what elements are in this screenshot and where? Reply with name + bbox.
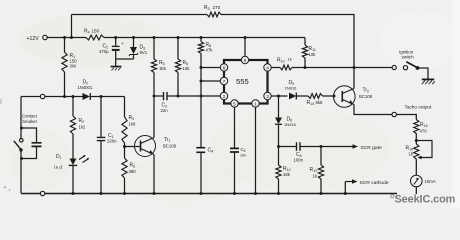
svg-text:1k2: 1k2: [79, 125, 87, 130]
IC U1 555 timer: [224, 60, 268, 104]
svg-text:2: 2: [223, 94, 226, 100]
pin 2: [220, 92, 227, 99]
pin 6: [220, 64, 227, 71]
svg-text:1k8: 1k8: [129, 122, 137, 127]
svg-text:BC108: BC108: [163, 144, 177, 149]
junction: [100, 192, 103, 195]
node SCR cathode output: [344, 182, 346, 194]
wire: [201, 67, 220, 69]
wire: [354, 105, 392, 115]
svg-text:5: 5: [233, 101, 236, 107]
resistor R4 150: [86, 35, 104, 40]
junction: [277, 145, 280, 148]
meter M1 10mA: [411, 175, 423, 187]
wire: [201, 80, 220, 82]
svg-text:390: 390: [129, 169, 137, 174]
svg-text:7: 7: [223, 79, 226, 85]
junction: [200, 192, 203, 195]
svg-text:Contact: Contact: [22, 114, 38, 119]
svg-text:BC108: BC108: [359, 94, 373, 99]
junction: [114, 36, 117, 39]
svg-text:150: 150: [92, 29, 100, 34]
wire: [71, 15, 73, 38]
svg-text:47k: 47k: [206, 48, 214, 53]
resistor R9 1k8: [124, 97, 126, 118]
svg-text:SCR gate: SCR gate: [361, 145, 382, 151]
svg-text:switch: switch: [402, 55, 415, 60]
wire: [22, 128, 37, 143]
node SCR gate output: [321, 146, 353, 148]
switch contact breaker points: [20, 128, 22, 138]
wire: [153, 96, 155, 138]
diode D6 1N916: [278, 96, 280, 118]
junction: [177, 36, 180, 39]
wire: [154, 95, 220, 97]
terminal: [40, 94, 44, 98]
junction: [320, 145, 323, 148]
resistor R2 1k2: [72, 97, 74, 117]
wire: [47, 37, 86, 39]
junction: [63, 95, 66, 98]
watermark: [391, 195, 394, 198]
wire: [353, 68, 355, 89]
ground: [422, 78, 434, 80]
terminal: [392, 112, 396, 116]
resistor R8 47k: [200, 38, 202, 42]
svg-text:6k8: 6k8: [316, 100, 324, 105]
svg-text:l.e.d.: l.e.d.: [54, 165, 63, 170]
resistor R10 1k: [280, 65, 292, 70]
capacitor C1 220n: [100, 97, 102, 138]
wire: [116, 58, 134, 60]
scan mottle: [20, 14, 160, 66]
wire: [20, 150, 22, 193]
resistor R1 150 3W: [64, 38, 66, 53]
transistor Tr2 BC108: [334, 86, 356, 108]
speck: [4, 187, 6, 189]
pin 7: [220, 77, 227, 84]
junction: [123, 192, 126, 195]
resistor R7 390: [124, 147, 126, 159]
wire: [45, 96, 83, 98]
resistor R6 10k: [177, 38, 179, 60]
junction: [63, 36, 66, 39]
svg-text:SeekIC.com: SeekIC.com: [395, 194, 456, 206]
junction: [20, 127, 23, 130]
terminal: [40, 191, 44, 195]
svg-text:10k: 10k: [309, 52, 317, 57]
wire: [415, 159, 417, 175]
svg-text:9V1: 9V1: [140, 50, 148, 55]
svg-text:18k: 18k: [283, 172, 291, 177]
wire: [279, 146, 297, 148]
junction: [153, 192, 156, 195]
svg-text:Tacho output: Tacho output: [405, 105, 433, 110]
resistor R15 470: [414, 120, 419, 134]
svg-text:10k: 10k: [183, 66, 191, 71]
wire: [221, 15, 354, 68]
svg-text:22n: 22n: [161, 108, 169, 113]
diode D2 1N4001: [83, 93, 91, 100]
wire: [396, 115, 416, 120]
junction: [353, 66, 356, 69]
svg-text:1: 1: [254, 101, 257, 107]
junction: [254, 192, 257, 195]
ground: [111, 66, 122, 68]
junction: [233, 192, 236, 195]
junction: [132, 36, 135, 39]
svg-text:270: 270: [213, 5, 221, 10]
junction: [277, 192, 280, 195]
wire: [271, 67, 280, 69]
junction: [72, 95, 75, 98]
svg-text:1N916: 1N916: [284, 122, 297, 127]
svg-text:1N4001: 1N4001: [78, 85, 93, 90]
pin 4: [264, 64, 271, 71]
svg-text:8: 8: [244, 58, 247, 64]
svg-text:220n: 220n: [107, 138, 117, 143]
svg-text:3W: 3W: [70, 64, 77, 69]
capacitor CA: [196, 148, 205, 153]
svg-text:breaker: breaker: [23, 119, 38, 124]
capacitor C contact breaker: [32, 143, 42, 147]
svg-text:1N916: 1N916: [285, 86, 298, 91]
wire: [125, 146, 141, 148]
capacitor C3 22n: [164, 92, 168, 100]
LED D1: [70, 159, 77, 166]
junction: [100, 95, 103, 98]
wire: [21, 96, 40, 98]
resistor R13 1k: [320, 147, 322, 166]
pin 8: [241, 56, 248, 63]
resistor R14 6k8: [308, 94, 323, 99]
resistor R5 1k5: [153, 38, 155, 60]
junction: [304, 66, 307, 69]
svg-text:1k: 1k: [288, 57, 292, 62]
junction: [123, 145, 126, 148]
wire: [271, 95, 287, 97]
junction: [200, 36, 203, 39]
transistor Tr1 BC108: [135, 136, 156, 157]
resistor R11 10k: [304, 38, 306, 46]
wire: [305, 67, 392, 69]
svg-text:3: 3: [266, 94, 269, 100]
svg-text:470µ: 470µ: [99, 49, 109, 54]
svg-text:1k5: 1k5: [159, 66, 167, 71]
wire: [255, 107, 257, 193]
pin 1: [252, 100, 259, 107]
svg-text:555: 555: [236, 77, 249, 86]
diode D5 1N916: [289, 93, 296, 100]
wire: [200, 54, 202, 148]
junction: [244, 36, 247, 39]
wire ground rail: [21, 193, 397, 195]
svg-text:10n: 10n: [240, 154, 246, 158]
junction: [72, 192, 75, 195]
junction: [344, 192, 347, 195]
junction: [153, 36, 156, 39]
svg-text:+: +: [121, 42, 124, 47]
junction: [415, 139, 418, 142]
speck: [0, 99, 2, 104]
potentiometer R16 1k: [415, 141, 417, 145]
wire: [72, 14, 208, 16]
pin 3: [264, 92, 271, 99]
svg-text:10mA: 10mA: [425, 179, 436, 184]
resistor R12 18k: [278, 147, 280, 166]
svg-text:SCR cathode: SCR cathode: [360, 180, 389, 186]
svg-text:100n: 100n: [294, 158, 304, 163]
pin 5: [231, 100, 238, 107]
wire: [104, 37, 305, 39]
wire: [20, 97, 22, 129]
resistor R3 270: [207, 12, 221, 17]
switch ignition switch: [392, 65, 396, 69]
capacitor C2 470µ: [115, 38, 117, 47]
wire: [244, 38, 246, 57]
junction: [70, 36, 73, 39]
svg-text:6: 6: [223, 65, 226, 71]
zener diode D3 9V1: [133, 38, 135, 48]
capacitor C6 100n: [297, 142, 301, 150]
junction: [320, 192, 323, 195]
svg-text:+12V: +12V: [27, 36, 40, 42]
wire: [153, 155, 155, 194]
svg-text:470: 470: [420, 128, 428, 133]
capacitor C5 10n: [234, 107, 236, 148]
svg-text:4: 4: [266, 65, 269, 71]
